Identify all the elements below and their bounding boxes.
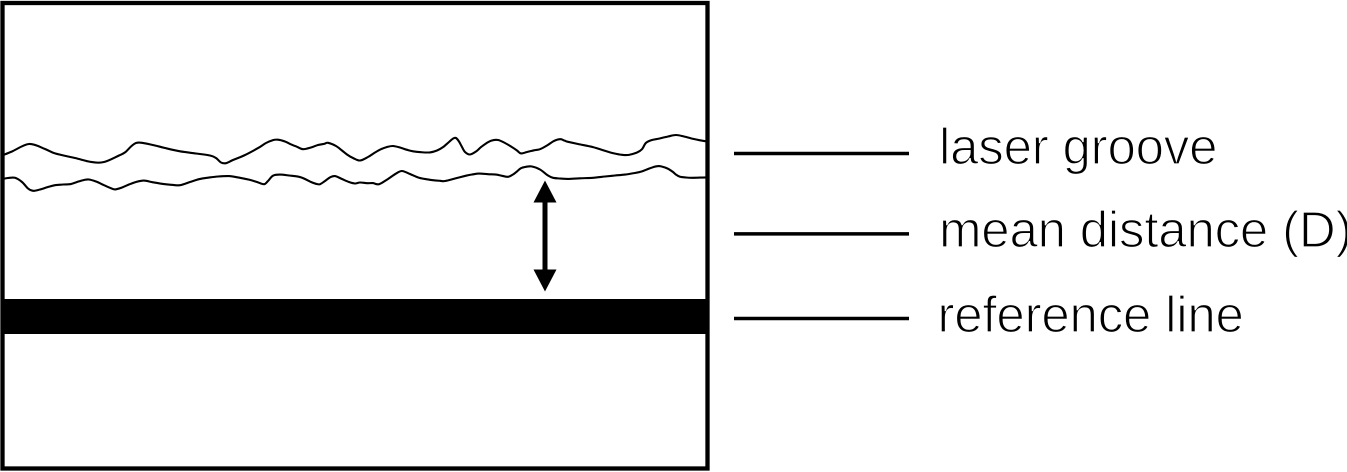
arrow D bottom head [534,270,557,292]
legend tick laser groove [734,152,909,156]
legend tick mean distance [734,232,909,236]
svg-text:reference line: reference line [938,286,1244,343]
legend tick reference line [734,317,909,321]
arrow D shaft [543,198,548,275]
laser groove upper profile [2,135,707,163]
laser groove lower profile [2,166,707,191]
arrow D top head [534,181,557,203]
reference bar [1,299,709,334]
svg-text:mean distance (D): mean distance (D) [939,201,1347,258]
substrate box [3,3,708,469]
svg-text:laser groove: laser groove [939,118,1217,175]
